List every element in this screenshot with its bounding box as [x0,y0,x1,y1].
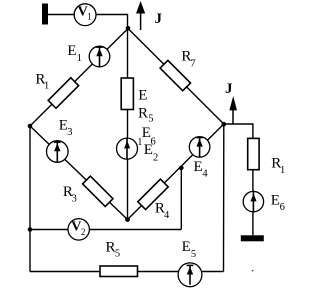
wire bottom (R5, E5) [30,271,224,273]
svg-text:V: V [71,219,81,234]
svg-text:5: 5 [148,113,153,124]
resistor R4 (lower-right diagonal) [138,179,168,209]
svg-text:J: J [225,81,233,97]
svg-text:1: 1 [77,53,82,64]
svg-text:1: 1 [137,137,142,148]
wire V2 horizontal [30,229,181,231]
chassis ground (top-left) [42,4,48,25]
source E5 [178,263,202,287]
svg-text:V: V [78,5,88,20]
svg-text:E: E [182,239,191,255]
svg-text:E: E [67,43,76,59]
source E2 [117,138,138,160]
wire top: chassis to V1 to top node [48,15,128,29]
svg-text:J: J [155,11,163,27]
svg-text:4: 4 [164,210,170,221]
svg-text:7: 7 [190,59,195,70]
ground (bottom-right) [241,235,264,241]
wire V2 tap vertical to E4 branch junction [180,168,182,230]
wire middle vertical branch (E/R5, E2) [127,29,129,220]
wire diagonal top node to left node (E1, R1) [30,29,128,127]
voltmeter V2 [68,219,89,240]
svg-text:5: 5 [115,248,120,259]
current source arrow J (top) [140,11,142,30]
resistor R1 (left diagonal) [48,78,78,108]
svg-text:3: 3 [67,127,72,138]
wire right node to right branch [224,124,253,235]
svg-text:5: 5 [191,249,196,260]
resistor R5 (middle vertical) [121,78,133,110]
resistor R5 (bottom horizontal) [100,266,138,277]
resistor R3 (lower-left diagonal) [83,176,113,206]
svg-text:2: 2 [153,152,158,163]
source E4 [189,137,210,158]
wire diagonal right node to bottom node (E4, R4) [128,124,224,220]
svg-text:3: 3 [72,193,77,204]
voltmeter V1 [74,4,96,26]
svg-text:1: 1 [44,81,49,92]
stray speck [252,270,254,272]
svg-text:E: E [138,87,147,103]
resistor R7 (right diagonal) [160,60,190,90]
node bottom [125,217,130,222]
source E6 [243,191,263,213]
junction on left wire at V2 wire [28,227,33,232]
wire diagonal left node to bottom node (E3, R3) [30,126,128,220]
source E1 [89,46,110,67]
wire diagonal top node to right node (R7) [128,29,224,125]
svg-text:6: 6 [280,202,285,213]
node left [28,124,33,129]
node top [126,26,131,31]
svg-text:1: 1 [280,165,285,176]
svg-text:E: E [271,193,280,209]
wire left vertical [29,126,31,272]
svg-text:R: R [138,105,148,121]
node right [222,122,227,127]
svg-text:2: 2 [81,227,86,237]
svg-text:4: 4 [202,169,208,180]
wire right lower vertical [223,124,225,272]
svg-text:E: E [144,142,153,158]
resistor R1 (right vertical) [248,138,259,169]
junction on E4 branch [179,166,184,171]
current source arrow J (right) [232,108,234,124]
svg-text:1: 1 [87,12,92,22]
source E3 [47,141,69,163]
svg-text:E: E [194,159,203,175]
